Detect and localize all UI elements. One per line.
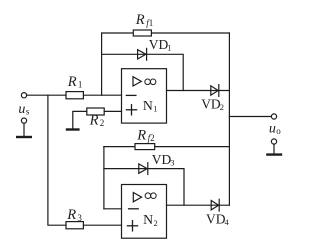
svg-text:2: 2 <box>220 102 224 112</box>
svg-text:1: 1 <box>167 43 171 53</box>
resistor R2 <box>87 108 104 115</box>
node input junction / wire down to R3 <box>48 95 66 225</box>
svg-text:s: s <box>26 106 30 116</box>
wire R1 to N1 inverting input <box>83 94 121 96</box>
svg-text:1: 1 <box>78 80 83 90</box>
wire feedback vertical N1 <box>101 33 103 95</box>
op-amp N1 infinity symbol <box>145 79 156 85</box>
wire VD1 branch <box>102 54 184 90</box>
wire R2 to ground <box>73 111 87 128</box>
ground (output) <box>267 139 281 155</box>
svg-text:N: N <box>143 98 153 113</box>
resistor Rf2 <box>135 144 155 150</box>
op-amp N2 plus marker <box>127 221 137 231</box>
svg-text:2: 2 <box>154 218 158 228</box>
ground (input) <box>17 118 31 137</box>
op-amp N2 box <box>122 185 167 239</box>
svg-text:3: 3 <box>77 213 82 223</box>
op-amp N1 plus marker <box>126 105 136 115</box>
terminal uo <box>271 114 276 119</box>
svg-text:f1: f1 <box>146 18 153 28</box>
terminal us <box>21 93 26 98</box>
diode VD2 <box>211 85 219 97</box>
wire N1 output <box>167 90 230 92</box>
svg-text:R: R <box>89 113 99 129</box>
diode VD1 <box>138 48 147 60</box>
resistor R1 <box>66 92 83 99</box>
op-amp N2 infinity symbol <box>145 193 156 199</box>
op-amp N2 minus marker <box>129 208 139 210</box>
op-amp N1 box <box>122 69 167 123</box>
svg-text:VD: VD <box>201 97 221 112</box>
svg-text:2: 2 <box>100 118 105 128</box>
svg-text:VD: VD <box>149 37 169 52</box>
svg-text:3: 3 <box>170 158 174 168</box>
wire Rf2 <box>104 146 229 148</box>
resistor R3 <box>66 222 83 229</box>
wire N2 output <box>167 204 230 206</box>
wire R3 to N2 plus <box>83 224 121 226</box>
svg-text:R: R <box>136 127 146 143</box>
svg-text:R: R <box>66 207 76 223</box>
wire Rf1 top <box>102 32 230 34</box>
wire output tap <box>229 116 271 118</box>
svg-text:VD: VD <box>206 211 226 226</box>
svg-text:1: 1 <box>153 104 157 114</box>
diode VD3 <box>139 163 148 175</box>
op-amp N1 triangle symbol <box>133 77 141 86</box>
svg-text:f2: f2 <box>148 133 155 143</box>
svg-text:VD: VD <box>152 152 172 167</box>
wire N2 inverting input <box>104 208 122 210</box>
wire VD3 branch <box>104 169 184 206</box>
wire feedback vertical N2 <box>103 147 105 209</box>
svg-text:u: u <box>269 121 276 136</box>
resistor Rf1 <box>133 30 151 36</box>
svg-text:u: u <box>18 102 25 117</box>
op-amp N2 triangle symbol <box>133 193 141 202</box>
svg-text:R: R <box>135 12 145 28</box>
diode VD4 <box>211 199 219 211</box>
wire right rail <box>228 33 230 205</box>
svg-text:R: R <box>67 74 77 90</box>
svg-text:o: o <box>276 126 281 136</box>
ground (R2) <box>67 128 78 130</box>
svg-text:N: N <box>143 212 153 227</box>
wire R2 to N1 noninverting input <box>104 110 121 112</box>
op-amp N1 minus marker <box>126 94 136 96</box>
wire us to R1 <box>27 94 66 96</box>
